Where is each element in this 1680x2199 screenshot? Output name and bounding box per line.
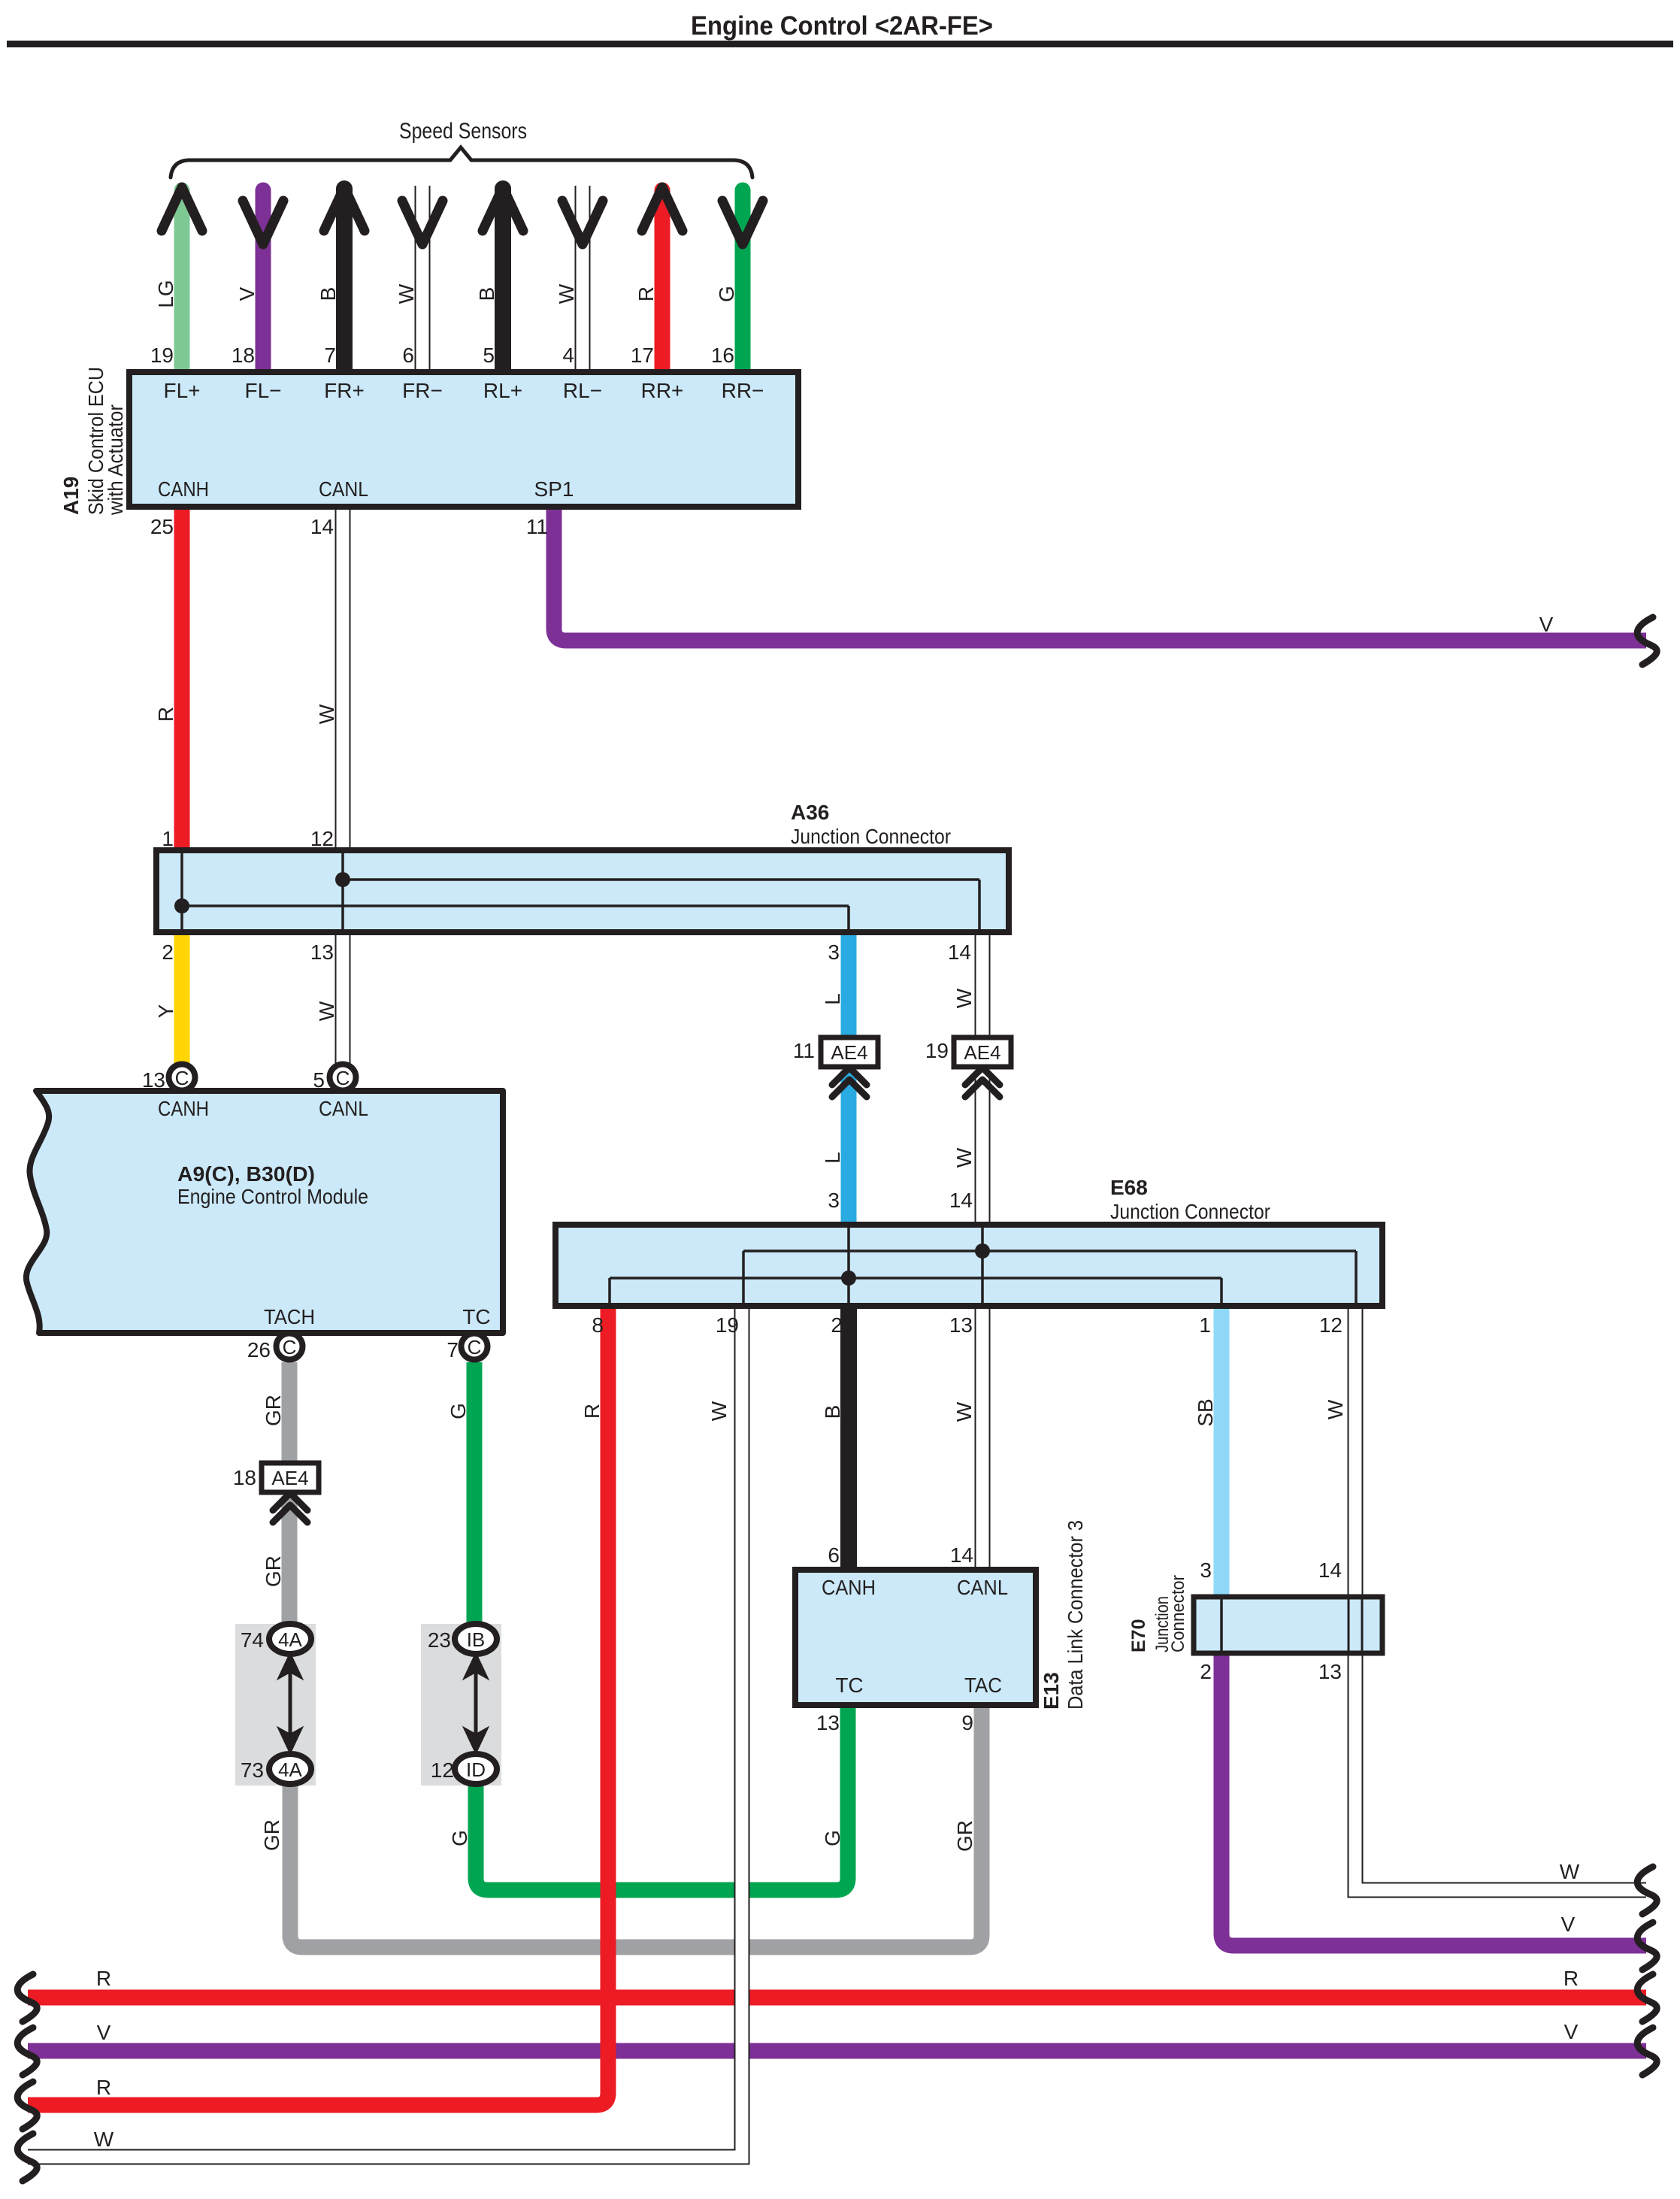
svg-text:5: 5 (483, 344, 495, 367)
svg-text:RL+: RL+ (483, 379, 522, 402)
svg-text:RR−: RR− (722, 379, 764, 402)
wire RR+ R sensor (655, 190, 670, 372)
break squiggle left R2 (17, 2082, 37, 2129)
svg-text:RR+: RR+ (641, 379, 684, 402)
svg-text:V: V (235, 286, 259, 301)
svg-text:Engine Control <2AR-FE>: Engine Control <2AR-FE> (691, 11, 993, 41)
E70 internal wire SB to V (1220, 1597, 1223, 1653)
svg-text:B: B (821, 1405, 844, 1419)
svg-text:G: G (448, 1830, 471, 1846)
break squiggle left R (17, 1974, 37, 2022)
svg-text:7: 7 (324, 344, 336, 367)
A36 internal CANL net (343, 850, 979, 932)
svg-text:11: 11 (793, 1039, 815, 1062)
svg-text:18: 18 (232, 344, 255, 367)
svg-text:A9(C), B30(D): A9(C), B30(D) (177, 1162, 315, 1186)
connector mate arrow down 4A (278, 1728, 302, 1753)
svg-text:19: 19 (925, 1039, 949, 1062)
wire V SP1 A19 to right edge (554, 507, 1646, 641)
svg-text:R: R (634, 286, 658, 301)
wire W A36 to AE4 (975, 932, 991, 1037)
svg-text:13: 13 (310, 940, 334, 964)
A36 internal junction dot CANH (174, 898, 189, 913)
AE4 connector pin11 box (821, 1037, 878, 1067)
svg-text:RL−: RL− (563, 379, 602, 402)
svg-text:4A: 4A (278, 1758, 302, 1781)
arrow down FR- (402, 201, 443, 244)
svg-text:3: 3 (828, 1189, 840, 1212)
wire W E68 pin12 through E70 down and right to edge (1355, 1306, 1646, 1890)
E68 internal CANH net (610, 1225, 1221, 1306)
svg-text:73: 73 (241, 1758, 264, 1782)
svg-text:R: R (154, 707, 177, 722)
svg-text:13: 13 (1318, 1660, 1342, 1683)
svg-text:E68: E68 (1110, 1176, 1148, 1199)
svg-text:2: 2 (1200, 1660, 1212, 1683)
A19 Skid Control ECU box (129, 372, 798, 507)
arrow down RR- (722, 201, 763, 244)
svg-text:13: 13 (816, 1711, 840, 1734)
svg-text:V: V (1561, 1913, 1576, 1936)
svg-text:ID: ID (466, 1758, 486, 1781)
svg-text:L: L (821, 1152, 844, 1164)
svg-text:13: 13 (142, 1068, 165, 1092)
arrow up FL+ (162, 187, 202, 231)
svg-text:CANH: CANH (158, 1097, 209, 1120)
arrow up FR+ (324, 187, 365, 231)
svg-text:AE4: AE4 (831, 1041, 867, 1064)
svg-text:Data Link Connector 3: Data Link Connector 3 (1064, 1520, 1087, 1710)
svg-text:C: C (175, 1067, 189, 1089)
svg-text:E13: E13 (1040, 1672, 1063, 1710)
svg-text:17: 17 (631, 344, 654, 367)
svg-text:Engine Control Module: Engine Control Module (177, 1185, 368, 1208)
connector circle C pin7 ECM TC (462, 1334, 488, 1360)
E70 internal W wire lines (1349, 1597, 1362, 1653)
svg-text:12: 12 (431, 1758, 454, 1782)
svg-text:B: B (316, 287, 340, 301)
shade rect connector pair IB-ID (421, 1624, 501, 1786)
svg-text:R: R (580, 1404, 604, 1419)
svg-text:Junction Connector: Junction Connector (1110, 1200, 1270, 1223)
svg-text:8: 8 (592, 1313, 604, 1337)
wire RR- G sensor (735, 190, 751, 372)
svg-text:B: B (475, 287, 498, 301)
AE4 connector pin18 box (262, 1463, 319, 1492)
wire GR connector 4A 73 to E13 TAC (290, 1705, 982, 1947)
title rule (7, 41, 1673, 47)
svg-text:19: 19 (150, 344, 174, 367)
svg-text:FR−: FR− (402, 379, 443, 402)
svg-text:CANL: CANL (319, 1097, 368, 1120)
svg-text:LG: LG (154, 280, 177, 307)
svg-text:R: R (96, 1967, 111, 1990)
svg-text:23: 23 (428, 1628, 451, 1652)
svg-text:GR: GR (953, 1820, 976, 1852)
break squiggle right R (1637, 1974, 1657, 2022)
svg-text:FL−: FL− (244, 379, 281, 402)
connector circle C pin26 ECM TACH (277, 1334, 303, 1360)
wire GR AE4 to connector 4A 74 (282, 1496, 298, 1625)
svg-text:C: C (336, 1067, 350, 1089)
svg-text:W: W (952, 988, 976, 1008)
wire FR- W sensor (415, 186, 431, 372)
svg-text:Junction Connector: Junction Connector (791, 825, 951, 848)
svg-text:12: 12 (1319, 1313, 1342, 1337)
svg-text:1: 1 (162, 827, 174, 850)
svg-text:TAC: TAC (964, 1673, 1002, 1697)
svg-text:W: W (395, 283, 418, 304)
AE4 connector pin19 box (954, 1037, 1011, 1067)
svg-text:9: 9 (961, 1711, 973, 1734)
svg-text:26: 26 (247, 1338, 271, 1362)
connector mate line IB-ID (474, 1672, 478, 1734)
break squiggle right V (1637, 1922, 1657, 1970)
wire V E70 to right edge (1221, 1653, 1646, 1946)
svg-text:FL+: FL+ (163, 379, 200, 402)
svg-text:CANH: CANH (158, 477, 209, 501)
AE4 pin18 double chevron (273, 1493, 307, 1522)
A36 Junction Connector box (156, 850, 1009, 932)
break squiggle right V2 (1637, 2028, 1657, 2075)
connector oval 4A pin73 (269, 1754, 311, 1784)
E68 internal junction dot CANL (975, 1243, 990, 1259)
AE4 pin19 double chevron (965, 1068, 1000, 1097)
svg-text:W: W (315, 1001, 338, 1021)
svg-text:W: W (1560, 1860, 1580, 1883)
svg-text:G: G (446, 1403, 470, 1419)
E13 Data Link Connector 3 box (795, 1570, 1036, 1705)
AE4 pin11 double chevron (832, 1068, 867, 1097)
connector circle C pin5 ECM CANL (330, 1065, 356, 1091)
wire FL+ LG sensor (174, 190, 190, 372)
svg-text:6: 6 (402, 344, 414, 367)
arrow down RL- (562, 201, 603, 244)
svg-text:3: 3 (1200, 1558, 1212, 1582)
break squiggle right W (1637, 1867, 1657, 1914)
wire FR+ B sensor (336, 189, 353, 372)
svg-text:11: 11 (526, 515, 548, 538)
svg-text:CANL: CANL (319, 477, 368, 501)
wire L A36 to AE4 (841, 932, 857, 1037)
svg-text:19: 19 (716, 1313, 739, 1337)
arrow up RR+ (642, 187, 683, 231)
svg-text:CANH: CANH (822, 1576, 876, 1599)
svg-text:Y: Y (154, 1004, 177, 1018)
connector mate arrow down ID (464, 1728, 488, 1753)
svg-text:14: 14 (950, 1543, 973, 1567)
svg-text:Connector: Connector (1168, 1575, 1188, 1652)
svg-text:7: 7 (446, 1338, 459, 1362)
svg-text:R: R (96, 2076, 111, 2099)
svg-text:6: 6 (828, 1543, 840, 1567)
E68 Junction Connector box (555, 1225, 1382, 1306)
svg-text:14: 14 (949, 1189, 973, 1212)
svg-text:14: 14 (310, 515, 334, 538)
svg-text:A19: A19 (59, 477, 83, 515)
svg-text:SP1: SP1 (534, 477, 574, 501)
wire G ECM TC to connector IB 23 (467, 1362, 483, 1625)
wire G connector ID 12 to E13 TC (476, 1705, 848, 1890)
E70 Junction Connector box (1194, 1597, 1382, 1653)
svg-text:V: V (1564, 2020, 1579, 2043)
A36 internal CANH net (182, 850, 849, 932)
svg-text:AE4: AE4 (964, 1041, 1000, 1064)
wire B E68 to E13 CANH (840, 1306, 857, 1570)
svg-text:18: 18 (233, 1466, 256, 1489)
svg-text:G: G (715, 286, 738, 302)
svg-text:W: W (94, 2128, 114, 2151)
svg-text:5: 5 (313, 1068, 325, 1092)
svg-text:G: G (821, 1830, 844, 1846)
svg-text:V: V (97, 2021, 111, 2044)
connector oval ID pin12 (455, 1754, 497, 1784)
svg-text:16: 16 (711, 344, 734, 367)
wire W A36 to ECM CANL (335, 932, 351, 1065)
svg-text:W: W (1324, 1399, 1347, 1419)
svg-text:74: 74 (241, 1628, 264, 1652)
svg-text:2: 2 (162, 940, 174, 964)
svg-text:W: W (707, 1401, 731, 1421)
svg-text:C: C (283, 1336, 297, 1358)
connector mate arrow up 4A (278, 1653, 302, 1679)
svg-text:V: V (1539, 613, 1554, 636)
wire W E68 to E13 CANL (975, 1306, 991, 1570)
svg-text:CANL: CANL (957, 1576, 1008, 1599)
svg-text:4: 4 (562, 344, 574, 367)
connector oval 4A pin74 (269, 1624, 311, 1654)
wire L AE4 to E68 (841, 1071, 857, 1225)
wire V horizontal full width (28, 2043, 1646, 2059)
arrow up RL+ (483, 187, 523, 231)
connector mate arrow up IB (464, 1653, 488, 1679)
break squiggle left V (17, 2028, 37, 2075)
shade rect connector pair 4A (235, 1624, 316, 1786)
wire R E68 pin8 down and left to edge (28, 1306, 608, 2105)
connector mate line 4A (289, 1672, 292, 1734)
wire W CANL A19 to A36 (335, 507, 351, 850)
svg-text:2: 2 (831, 1313, 843, 1337)
svg-text:IB: IB (467, 1628, 486, 1651)
svg-text:FR+: FR+ (324, 379, 365, 402)
svg-text:W: W (952, 1401, 976, 1422)
wire R CANH A19 to A36 (174, 507, 190, 850)
svg-text:A36: A36 (791, 801, 829, 824)
svg-text:SB: SB (1194, 1398, 1217, 1426)
svg-text:GR: GR (262, 1395, 285, 1426)
svg-text:E70: E70 (1128, 1619, 1149, 1652)
svg-text:TC: TC (835, 1673, 863, 1697)
svg-text:1: 1 (1199, 1313, 1211, 1337)
svg-text:TC: TC (462, 1305, 490, 1328)
svg-text:4A: 4A (278, 1628, 302, 1651)
svg-text:GR: GR (260, 1819, 283, 1851)
break squiggle left W (17, 2134, 37, 2181)
svg-text:with Actuator: with Actuator (104, 404, 127, 516)
wire Y A36 to ECM CANH (174, 932, 190, 1065)
connector oval IB pin23 (455, 1624, 497, 1654)
wire R horizontal full width (28, 1990, 1646, 2006)
svg-text:AE4: AE4 (271, 1467, 308, 1489)
svg-text:W: W (952, 1147, 976, 1168)
arrow down FL- (243, 201, 283, 244)
svg-text:25: 25 (150, 515, 174, 538)
wire SB E68 to E70 (1214, 1306, 1230, 1597)
ECM A9(C) B30(D) box with torn left edge (26, 1091, 503, 1333)
break squiggle right V SP1 (1637, 617, 1657, 665)
wire RL- W sensor (575, 186, 591, 372)
svg-text:L: L (821, 993, 844, 1005)
svg-text:TACH: TACH (264, 1305, 315, 1328)
wire RL+ B sensor (495, 189, 511, 372)
wire FL- V sensor (256, 190, 271, 372)
E68 internal CANL net (743, 1225, 1356, 1306)
svg-text:R: R (1563, 1967, 1579, 1990)
svg-text:GR: GR (262, 1555, 285, 1587)
svg-text:14: 14 (948, 940, 971, 964)
E68 internal junction dot CANH (841, 1271, 856, 1286)
connector circle C pin13 ECM CANH (169, 1065, 195, 1091)
svg-text:C: C (468, 1336, 482, 1358)
svg-text:W: W (555, 283, 578, 304)
wire GR ECM TACH to AE4 (282, 1362, 298, 1463)
Speed Sensors brace (171, 147, 752, 177)
wire W AE4 to E68 (975, 1071, 991, 1225)
svg-text:Speed Sensors: Speed Sensors (399, 119, 527, 144)
svg-text:3: 3 (828, 940, 840, 964)
A36 internal junction dot CANL (335, 872, 350, 887)
svg-text:14: 14 (1318, 1558, 1342, 1582)
wire W E68 pin19 down and left to edge (28, 1306, 742, 2157)
svg-text:13: 13 (949, 1313, 973, 1337)
svg-text:W: W (315, 704, 338, 724)
svg-text:12: 12 (310, 827, 334, 850)
